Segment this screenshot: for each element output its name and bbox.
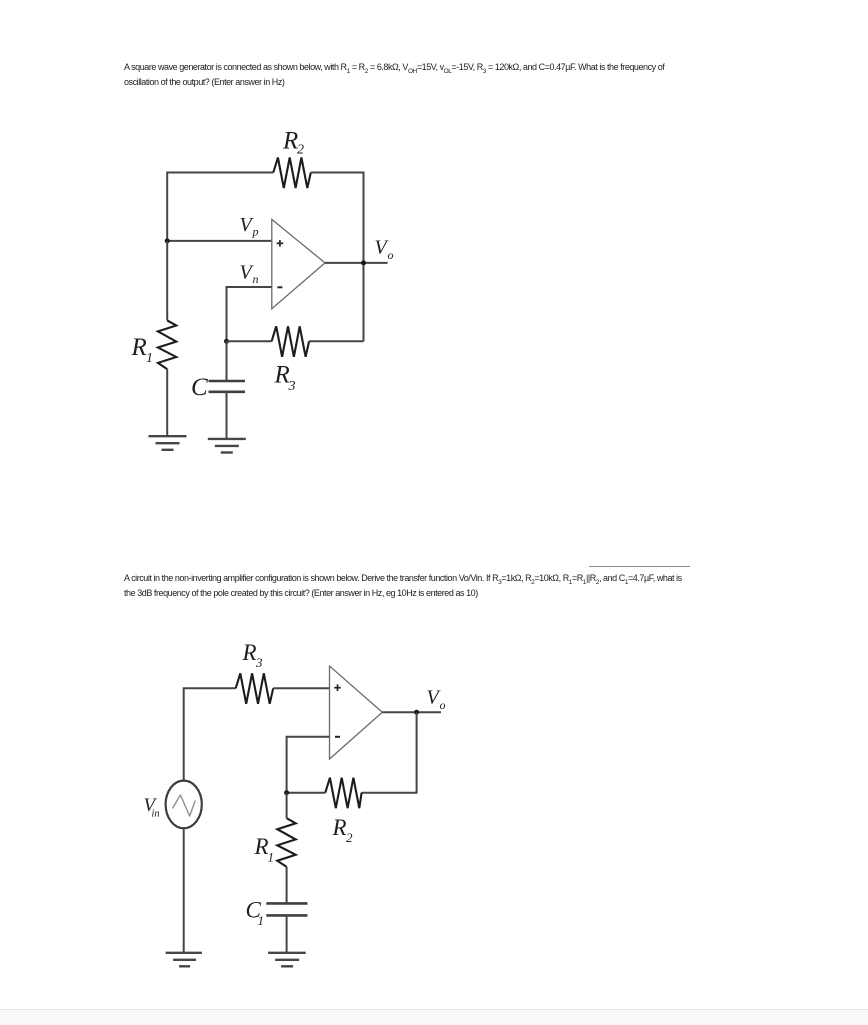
label R1 (circuit 1) [131, 334, 154, 366]
source Vin sine symbol [173, 795, 196, 816]
wire: R3 to op-amp plus input [273, 687, 329, 689]
problem 2 statement [124, 571, 682, 602]
op-amp U1 minus sign [277, 286, 282, 288]
wire: capacitor to ground [226, 392, 228, 439]
op-amp U2 minus sign [335, 736, 340, 738]
capacitor C1 (circuit 2) plates [266, 903, 307, 915]
svg-text:R: R [242, 640, 257, 665]
wire: C1 to ground [286, 915, 288, 952]
footer divider strip [0, 1009, 868, 1025]
resistor R2 (circuit 1) zigzag [273, 158, 311, 189]
node Vn junction dot [224, 339, 229, 344]
node inverting junction dot [284, 790, 289, 795]
label Vo (circuit 1) [375, 237, 394, 263]
svg-text:R: R [332, 815, 347, 840]
svg-text:C: C [191, 374, 208, 401]
label Vin [144, 795, 160, 820]
svg-text:o: o [388, 248, 394, 262]
svg-text:R: R [274, 362, 290, 389]
wire: output node down to R2 [362, 712, 417, 793]
resistor R1 (circuit 1) vertical zigzag [158, 320, 176, 369]
label R3 (circuit 1) [274, 362, 296, 395]
wire: Vn input horizontal [227, 287, 272, 341]
label Vo (circuit 2) [427, 687, 446, 713]
svg-text:in: in [152, 809, 160, 820]
wire: R3 to right vertical [309, 340, 363, 342]
svg-text:o: o [440, 698, 446, 712]
label R1 (circuit 2) [254, 834, 275, 865]
source Vin ellipse [166, 781, 202, 829]
wire: Vin to ground [183, 828, 185, 952]
wire: Vin to R3 input [184, 688, 236, 780]
wire: right vertical output to R3 [363, 263, 365, 341]
svg-text:p: p [252, 225, 259, 239]
resistor R3 (circuit 2) zigzag [236, 673, 274, 704]
wire: Vn node down to capacitor [226, 341, 228, 381]
svg-text:1: 1 [258, 913, 265, 928]
wire: node to R1 [286, 793, 288, 819]
op-amp U1 plus sign [277, 240, 284, 247]
svg-text:2: 2 [346, 830, 353, 845]
svg-text:n: n [253, 272, 259, 286]
label R2 (circuit 2) [332, 815, 354, 845]
label Vp [240, 214, 259, 239]
resistor R2 (circuit 2) zigzag [325, 778, 361, 809]
label R3 (circuit 2) [242, 640, 264, 670]
wire: R1 to capacitor C1 [286, 867, 288, 904]
label Vn [240, 262, 259, 287]
label R2 (circuit 1) [282, 128, 304, 158]
ground (under R1, circuit 1) [149, 436, 187, 450]
svg-text:1: 1 [146, 351, 153, 366]
op-amp U1 triangle [272, 219, 325, 308]
wire: top feedback right segment [311, 173, 364, 263]
wire: R2 to inverting node [287, 792, 326, 794]
resistor R3 (circuit 1) zigzag [272, 326, 310, 357]
wire: left vertical Vp node to R1 [166, 241, 168, 321]
svg-text:1: 1 [268, 850, 275, 865]
ground (under C1, circuit 2) [268, 953, 306, 967]
overline above R1||R2 expression [589, 566, 690, 567]
wire: inverting input [287, 737, 330, 793]
problem 1 statement [124, 60, 664, 91]
ground (under Vin, circuit 2) [166, 953, 202, 967]
resistor R1 (circuit 2) vertical zigzag [277, 818, 295, 867]
wire: output of op-amp [325, 262, 388, 264]
wire: Vp input [167, 240, 272, 242]
node output junction dot (circuit 2) [414, 710, 419, 715]
svg-text:3: 3 [288, 379, 296, 394]
wire: Vn node to R3 [227, 340, 272, 342]
svg-text:2: 2 [297, 143, 304, 158]
label C1 (circuit 2) [246, 898, 265, 929]
wire: R1 to ground [166, 369, 168, 436]
node Vp junction dot [165, 238, 170, 243]
svg-text:R: R [131, 334, 147, 361]
wire: op-amp output [382, 711, 441, 713]
node output junction dot (circuit 1) [361, 260, 366, 265]
svg-text:R: R [254, 834, 269, 859]
op-amp U2 triangle [330, 666, 383, 759]
svg-text:3: 3 [255, 655, 263, 670]
op-amp U2 plus sign [334, 684, 341, 691]
ground (under C, circuit 1) [208, 439, 246, 453]
capacitor C (circuit 1) plates [209, 381, 246, 392]
wire: top feedback left segment [167, 173, 273, 241]
svg-text:R: R [282, 128, 298, 155]
